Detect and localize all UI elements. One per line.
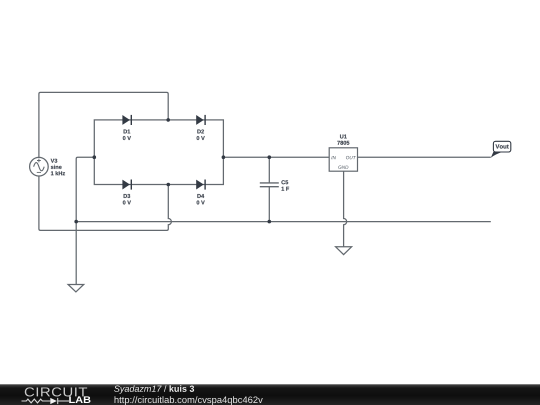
D2 label	[197, 129, 204, 133]
U1 pin label OUT	[346, 156, 356, 159]
voltage source V3	[30, 157, 49, 176]
wire: capacitor top lead	[268, 157, 270, 183]
U1 label	[340, 135, 347, 139]
D4 value 0 V	[197, 200, 205, 204]
Vout flag	[493, 141, 510, 152]
diode D3	[122, 180, 131, 190]
regulator U1 7805 box	[329, 148, 357, 171]
node: capacitor bottom junction	[268, 220, 272, 224]
wire: capacitor bottom lead	[268, 187, 270, 222]
CircuitLab logo CIRCUIT	[25, 387, 87, 396]
D2 value 0 V	[197, 136, 205, 140]
C5 value 1 F	[282, 187, 290, 191]
footer url	[115, 396, 263, 405]
CircuitLab logo LAB	[69, 396, 90, 403]
D4 label	[197, 194, 204, 198]
C5 label	[281, 180, 288, 184]
CircuitLab logo schematic squiggle	[22, 398, 70, 404]
ground (left)	[68, 285, 84, 292]
wire: ground rail	[76, 221, 491, 223]
Vout flag pointer	[491, 152, 503, 158]
U1 value 7805	[337, 141, 349, 145]
V3 value 1 kHz	[51, 171, 65, 175]
node: bridge bottom junction	[167, 183, 171, 187]
D1 label	[124, 130, 131, 134]
U1 pin label GND	[338, 166, 348, 169]
V3 label	[51, 159, 58, 163]
footer bar	[0, 384, 540, 405]
V3 value sine	[51, 165, 62, 169]
diode D4	[196, 180, 205, 190]
wire: bridge left node to ground branch	[76, 157, 94, 221]
Vout label	[495, 144, 508, 148]
diode D1	[122, 115, 131, 125]
diode D2	[196, 115, 205, 125]
D3 value 0 V	[123, 200, 131, 204]
capacitor C5	[260, 183, 279, 187]
wire: regulator GND drop (with hop over rail)	[344, 171, 347, 247]
U1 pin label IN	[331, 156, 336, 159]
node: capacitor top junction	[268, 155, 272, 159]
wire: V3 top to bridge top-center	[39, 92, 168, 157]
wire: left ground drop	[75, 222, 77, 285]
node: rail left junction	[74, 220, 78, 224]
wire: V3 bottom return to bridge bottom-center (with hop over rail)	[39, 176, 171, 230]
footer title Syadazm17 / kuis 3	[114, 385, 194, 393]
node: bridge right junction	[222, 155, 226, 159]
ground (under regulator)	[336, 247, 352, 255]
D1 value 0 V	[123, 136, 131, 140]
wire: regulator OUT to Vout	[358, 156, 491, 158]
D3 label	[124, 194, 131, 198]
wire: bridge right node to regulator IN	[223, 156, 329, 158]
node: bridge left junction	[93, 155, 97, 159]
wire: bridge rectangle loop	[94, 120, 223, 185]
node: bridge top junction	[166, 118, 170, 122]
